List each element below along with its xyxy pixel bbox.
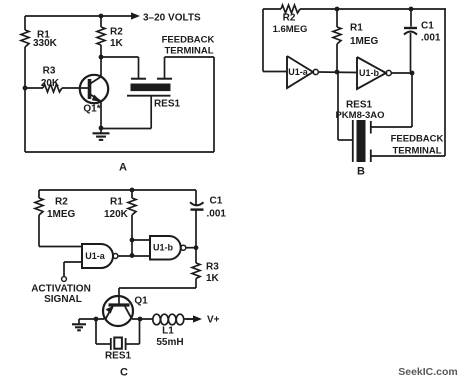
svg-text:Q1*: Q1* xyxy=(83,104,100,115)
svg-text:C1: C1 xyxy=(210,196,223,207)
svg-text:U1-b: U1-b xyxy=(359,68,380,78)
svg-text:A: A xyxy=(119,162,127,174)
svg-text:RES1: RES1 xyxy=(105,351,132,362)
svg-text:330K: 330K xyxy=(33,38,58,49)
svg-text:1.6MEG: 1.6MEG xyxy=(273,24,308,35)
svg-text:R3: R3 xyxy=(206,262,219,273)
svg-text:120K: 120K xyxy=(104,209,129,220)
svg-text:SeekIC.com: SeekIC.com xyxy=(398,366,458,378)
svg-text:55mH: 55mH xyxy=(156,337,183,348)
svg-text:U1-b: U1-b xyxy=(153,243,174,253)
svg-text:SIGNAL: SIGNAL xyxy=(44,294,82,305)
svg-text:1K: 1K xyxy=(110,38,124,49)
svg-text:3–20 VOLTS: 3–20 VOLTS xyxy=(143,13,201,24)
svg-text:.001: .001 xyxy=(421,33,441,44)
svg-text:R3: R3 xyxy=(43,66,56,77)
svg-text:C: C xyxy=(120,367,128,379)
svg-text:FEEDBACK: FEEDBACK xyxy=(391,134,444,145)
svg-text:B: B xyxy=(357,166,365,178)
svg-text:TERMINAL: TERMINAL xyxy=(164,46,213,57)
svg-text:U1-a: U1-a xyxy=(85,251,106,261)
svg-text:PKM8-3AO: PKM8-3AO xyxy=(335,110,384,121)
svg-text:R2: R2 xyxy=(55,197,68,208)
svg-text:V+: V+ xyxy=(207,315,220,326)
svg-text:1MEG: 1MEG xyxy=(350,36,379,47)
svg-text:C1: C1 xyxy=(421,21,434,32)
svg-text:TERMINAL: TERMINAL xyxy=(392,146,441,157)
svg-text:1MEG: 1MEG xyxy=(47,209,76,220)
svg-text:L1: L1 xyxy=(162,326,174,337)
svg-text:R2: R2 xyxy=(283,13,296,24)
svg-text:U1-a: U1-a xyxy=(288,67,309,77)
svg-text:R1: R1 xyxy=(350,23,363,34)
svg-text:Q1: Q1 xyxy=(134,296,148,307)
svg-text:1K: 1K xyxy=(206,273,220,284)
svg-text:R2: R2 xyxy=(110,27,123,38)
svg-text:FEEDBACK: FEEDBACK xyxy=(162,35,215,46)
svg-text:R1: R1 xyxy=(110,197,123,208)
svg-text:20K: 20K xyxy=(41,78,60,89)
svg-text:.001: .001 xyxy=(207,208,227,219)
svg-text:RES1: RES1 xyxy=(154,99,181,110)
